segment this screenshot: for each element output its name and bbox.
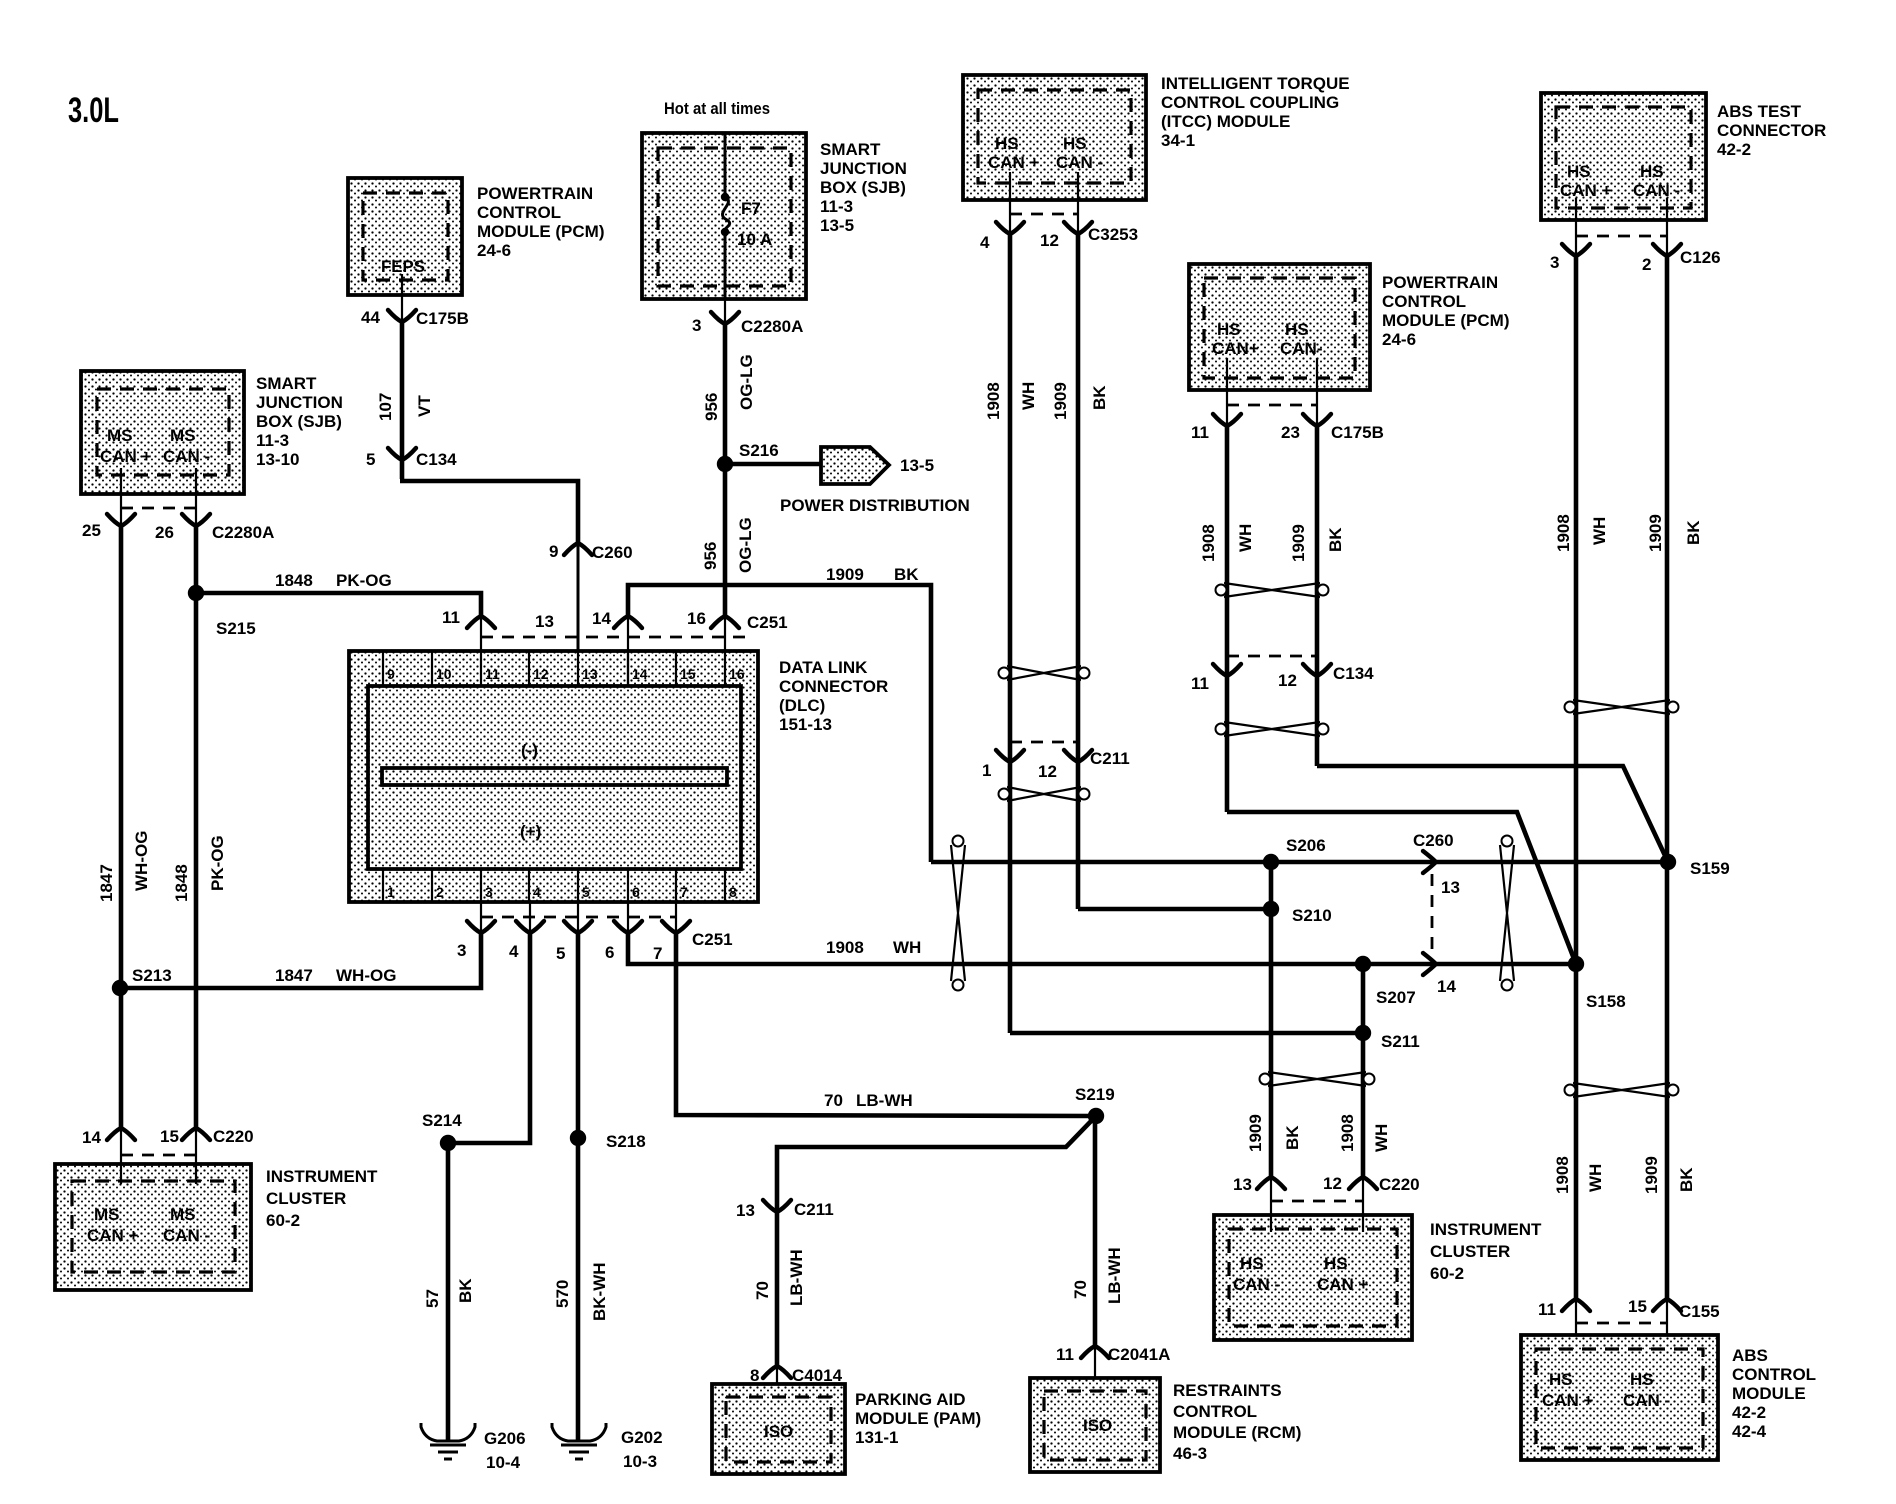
svg-text:INTELLIGENT TORQUE: INTELLIGENT TORQUE xyxy=(1161,74,1350,93)
splice S207 xyxy=(1355,956,1371,972)
svg-text:1908: 1908 xyxy=(1199,524,1218,562)
module DLC box xyxy=(349,651,758,902)
svg-text:WH: WH xyxy=(1586,1164,1605,1192)
wire 1847 WH-OG to DLC pin 3 xyxy=(120,933,481,988)
svg-text:BK: BK xyxy=(1326,527,1345,552)
svg-text:C220: C220 xyxy=(213,1127,254,1146)
svg-text:956: 956 xyxy=(702,393,721,421)
svg-text:14: 14 xyxy=(592,609,611,628)
svg-text:CONTROL: CONTROL xyxy=(1732,1365,1816,1384)
svg-text:CAN -: CAN - xyxy=(1633,181,1680,200)
svg-text:70: 70 xyxy=(753,1281,772,1300)
DLC pin 7 stub and arrow xyxy=(675,902,677,933)
svg-text:MODULE (PCM): MODULE (PCM) xyxy=(477,222,604,241)
svg-text:13: 13 xyxy=(582,666,598,682)
connector C251 pin 11 arrow xyxy=(467,616,495,628)
svg-text:1909: 1909 xyxy=(1646,514,1665,552)
splice S215 xyxy=(188,585,204,601)
svg-text:ISO: ISO xyxy=(1083,1416,1112,1435)
svg-text:WH: WH xyxy=(1590,517,1609,545)
svg-text:ABS TEST: ABS TEST xyxy=(1717,102,1802,121)
svg-text:14: 14 xyxy=(632,666,648,682)
twisted pair symbol PCM lower xyxy=(1216,722,1329,736)
svg-text:CONTROL: CONTROL xyxy=(477,203,561,222)
svg-text:13-5: 13-5 xyxy=(900,456,934,475)
svg-text:(+): (+) xyxy=(520,822,541,841)
svg-text:1908: 1908 xyxy=(984,382,1003,420)
svg-text:1908: 1908 xyxy=(1553,1156,1572,1194)
svg-text:11: 11 xyxy=(442,608,460,627)
splice S206 xyxy=(1263,854,1279,870)
module ABS control module box xyxy=(1521,1335,1718,1460)
label SMART JUNCTION BOX (SJB) 11-3 13-10 xyxy=(256,374,343,469)
svg-text:1909: 1909 xyxy=(1246,1114,1265,1152)
svg-text:1909: 1909 xyxy=(1051,382,1070,420)
label PARKING AID MODULE (PAM) 131-1 xyxy=(855,1390,981,1447)
svg-text:HS: HS xyxy=(1640,162,1664,181)
svg-text:CAN -: CAN - xyxy=(1056,153,1103,172)
svg-text:12: 12 xyxy=(1323,1174,1342,1193)
connector C155 dashed xyxy=(1576,1322,1667,1325)
svg-text:9: 9 xyxy=(549,542,558,561)
svg-text:12: 12 xyxy=(1040,231,1059,250)
svg-text:13: 13 xyxy=(1233,1175,1252,1194)
DLC pin 5 stub and arrow xyxy=(577,902,579,933)
svg-text:(ITCC) MODULE: (ITCC) MODULE xyxy=(1161,112,1290,131)
svg-text:HS: HS xyxy=(1549,1370,1573,1389)
svg-text:CONTROL COUPLING: CONTROL COUPLING xyxy=(1161,93,1339,112)
svg-text:WH-OG: WH-OG xyxy=(336,966,396,985)
svg-text:13: 13 xyxy=(736,1201,755,1220)
svg-text:S215: S215 xyxy=(216,619,256,638)
svg-text:44: 44 xyxy=(361,308,380,327)
svg-text:10-3: 10-3 xyxy=(623,1452,657,1471)
svg-text:S219: S219 xyxy=(1075,1085,1115,1104)
svg-text:SMART: SMART xyxy=(256,374,317,393)
svg-text:15: 15 xyxy=(680,666,696,682)
svg-text:11-3: 11-3 xyxy=(256,431,289,450)
svg-text:BK: BK xyxy=(894,565,919,584)
wire S216 to power distribution flag xyxy=(725,462,821,467)
svg-text:LB-WH: LB-WH xyxy=(1105,1247,1124,1304)
svg-text:VT: VT xyxy=(415,395,434,417)
wire 1847 WH-OG left vertical xyxy=(119,526,124,1128)
svg-text:CAN-: CAN- xyxy=(1280,339,1323,358)
svg-text:OG-LG: OG-LG xyxy=(736,517,755,573)
wire stubs out of SJB left xyxy=(120,468,122,528)
wire 1909 BK from DLC pin 14 xyxy=(628,585,931,862)
svg-text:SMART: SMART xyxy=(820,140,881,159)
svg-text:S213: S213 xyxy=(132,966,172,985)
svg-text:C3253: C3253 xyxy=(1088,225,1138,244)
DLC pin 3 stub and arrow xyxy=(480,902,482,933)
svg-text:BK: BK xyxy=(1090,385,1109,410)
wire ITCC 1908 WH vertical xyxy=(1008,234,1013,1033)
svg-text:25: 25 xyxy=(82,521,101,540)
module instrument cluster left box xyxy=(55,1164,251,1290)
label SMART JUNCTION BOX (SJB) 11-3 13-5 xyxy=(820,140,907,235)
svg-text:BK: BK xyxy=(1684,520,1703,545)
svg-text:70: 70 xyxy=(824,1091,843,1110)
svg-text:C251: C251 xyxy=(692,930,733,949)
svg-text:1847: 1847 xyxy=(97,864,116,902)
svg-text:570: 570 xyxy=(553,1280,572,1308)
wire ABS 1908 WH vertical xyxy=(1574,256,1579,1299)
ground G202 xyxy=(552,1423,606,1459)
fuse F7 10A xyxy=(721,193,772,249)
svg-text:10: 10 xyxy=(436,666,452,682)
svg-text:60-2: 60-2 xyxy=(1430,1264,1464,1283)
svg-text:15: 15 xyxy=(160,1127,179,1146)
svg-text:MS: MS xyxy=(170,426,196,445)
svg-text:42-2: 42-2 xyxy=(1732,1403,1766,1422)
svg-text:12: 12 xyxy=(1278,671,1297,690)
svg-text:INSTRUMENT: INSTRUMENT xyxy=(266,1167,378,1186)
connector C220 left dashed xyxy=(121,1154,196,1157)
svg-text:46-3: 46-3 xyxy=(1173,1444,1207,1463)
connector C260 inline arrow pin 14 xyxy=(1423,953,1436,975)
module SJB top (fuse F7) box xyxy=(642,133,806,299)
wire S210 down to cluster right pin 13 xyxy=(1269,909,1274,1177)
svg-text:3: 3 xyxy=(692,316,701,335)
svg-text:WH-OG: WH-OG xyxy=(132,831,151,891)
svg-text:HS: HS xyxy=(995,134,1019,153)
svg-text:1848: 1848 xyxy=(275,571,313,590)
svg-text:MODULE (PAM): MODULE (PAM) xyxy=(855,1409,981,1428)
svg-text:RESTRAINTS: RESTRAINTS xyxy=(1173,1381,1282,1400)
svg-text:CONNECTOR: CONNECTOR xyxy=(779,677,888,696)
svg-text:CAN +: CAN + xyxy=(1542,1391,1594,1410)
svg-text:C126: C126 xyxy=(1680,248,1721,267)
svg-text:CONTROL: CONTROL xyxy=(1173,1402,1257,1421)
connector C4014 pin 8 arrow xyxy=(763,1366,791,1378)
label ABS CONTROL MODULE 42-2 42-4 xyxy=(1732,1346,1816,1441)
svg-text:BK-WH: BK-WH xyxy=(590,1262,609,1321)
svg-text:S211: S211 xyxy=(1381,1032,1420,1051)
svg-text:2: 2 xyxy=(1642,255,1651,274)
svg-text:CAN +: CAN + xyxy=(988,153,1040,172)
svg-text:MS: MS xyxy=(170,1205,196,1224)
svg-text:5: 5 xyxy=(556,944,565,963)
svg-text:C134: C134 xyxy=(1333,664,1374,683)
svg-text:60-2: 60-2 xyxy=(266,1211,300,1230)
svg-text:HS: HS xyxy=(1324,1254,1348,1273)
svg-text:PK-OG: PK-OG xyxy=(336,571,392,590)
module RCM box xyxy=(1030,1378,1160,1472)
svg-text:11: 11 xyxy=(485,666,500,682)
svg-text:70: 70 xyxy=(1071,1280,1090,1299)
module SJB left box xyxy=(81,371,244,494)
svg-text:15: 15 xyxy=(1628,1297,1647,1316)
DLC pin dividers top xyxy=(383,651,725,686)
svg-text:1908: 1908 xyxy=(826,938,864,957)
svg-text:WH: WH xyxy=(893,938,921,957)
splice S210 xyxy=(1263,901,1279,917)
wire 70 LB-WH from DLC pin 7 to S219 xyxy=(676,931,1096,1116)
svg-text:Hot at all times: Hot at all times xyxy=(664,99,770,118)
svg-text:HS: HS xyxy=(1063,134,1087,153)
svg-text:1908: 1908 xyxy=(1554,514,1573,552)
twisted pair symbol PCM upper xyxy=(1216,583,1329,597)
svg-text:CAN+: CAN+ xyxy=(1212,339,1259,358)
svg-text:1: 1 xyxy=(982,761,991,780)
svg-text:MODULE (PCM): MODULE (PCM) xyxy=(1382,311,1509,330)
label INTELLIGENT TORQUE CONTROL COUPLING (ITCC) MODULE 34-1 xyxy=(1161,74,1350,150)
svg-text:MS: MS xyxy=(94,1205,120,1224)
svg-text:3: 3 xyxy=(1550,253,1559,272)
svg-text:16: 16 xyxy=(687,609,706,628)
svg-text:HS: HS xyxy=(1285,320,1309,339)
svg-text:7: 7 xyxy=(653,944,662,963)
connector C175B pin 44 arrow xyxy=(388,310,416,322)
svg-text:BK: BK xyxy=(1677,1167,1696,1192)
svg-text:ABS: ABS xyxy=(1732,1346,1768,1365)
twisted pair symbol main right xyxy=(1500,836,1514,991)
DLC pin numbers bottom xyxy=(387,884,737,900)
svg-text:C134: C134 xyxy=(416,450,457,469)
DLC pin 6 stub and arrow xyxy=(627,902,629,933)
splice S211 xyxy=(1355,1025,1371,1041)
svg-text:CAN -: CAN - xyxy=(1623,1391,1670,1410)
svg-text:CONTROL: CONTROL xyxy=(1382,292,1466,311)
wire S211 down to cluster right pin 12 xyxy=(1361,1033,1366,1177)
svg-text:CAN -: CAN - xyxy=(1233,1275,1280,1294)
svg-text:11-3: 11-3 xyxy=(820,197,853,216)
svg-text:1909: 1909 xyxy=(1642,1156,1661,1194)
twisted pair symbol cluster right xyxy=(1260,1072,1375,1086)
svg-text:HS: HS xyxy=(1630,1370,1654,1389)
svg-text:LB-WH: LB-WH xyxy=(856,1091,913,1110)
svg-text:1908: 1908 xyxy=(1338,1114,1357,1152)
svg-text:C211: C211 xyxy=(794,1200,834,1219)
svg-text:13: 13 xyxy=(1441,878,1460,897)
svg-text:7: 7 xyxy=(680,884,688,900)
svg-text:G202: G202 xyxy=(621,1428,663,1447)
label ABS TEST CONNECTOR 42-2 xyxy=(1717,102,1826,159)
svg-text:WH: WH xyxy=(1019,382,1038,410)
svg-text:14: 14 xyxy=(1437,977,1456,996)
svg-text:F7: F7 xyxy=(741,199,761,218)
label DATA LINK CONNECTOR (DLC) 151-13 xyxy=(779,658,888,734)
svg-text:11: 11 xyxy=(1538,1300,1556,1319)
connector C211 pin 13 arrow xyxy=(763,1200,791,1212)
svg-text:INSTRUMENT: INSTRUMENT xyxy=(1430,1220,1542,1239)
label RESTRAINTS CONTROL MODULE (RCM) 46-3 xyxy=(1173,1381,1301,1463)
svg-text:CAN -: CAN - xyxy=(163,447,210,466)
svg-text:5: 5 xyxy=(366,450,375,469)
DLC pin dividers bottom xyxy=(383,869,725,902)
svg-text:WH: WH xyxy=(1236,524,1255,552)
wire S219 diagonal to PAM branch xyxy=(777,1116,1096,1366)
wire fuse to box bottom xyxy=(724,230,727,299)
module PAM box xyxy=(712,1384,845,1474)
svg-text:HS: HS xyxy=(1217,320,1241,339)
svg-text:24-6: 24-6 xyxy=(477,241,511,260)
main bus line 1909 BK horizontal S206 xyxy=(931,860,1668,865)
svg-text:C155: C155 xyxy=(1679,1302,1720,1321)
svg-text:ISO: ISO xyxy=(764,1422,793,1441)
svg-text:S158: S158 xyxy=(1586,992,1626,1011)
svg-text:S218: S218 xyxy=(606,1132,646,1151)
wire ITCC BK to S210 xyxy=(1078,907,1271,912)
DLC pin 4 stub and arrow xyxy=(529,902,531,933)
svg-text:C2280A: C2280A xyxy=(212,523,274,542)
svg-text:LB-WH: LB-WH xyxy=(787,1249,806,1306)
power distribution flag symbol xyxy=(821,447,889,484)
svg-text:BK: BK xyxy=(1283,1125,1302,1150)
ITCC wire stubs xyxy=(1009,172,1011,236)
svg-text:CAN +: CAN + xyxy=(100,447,152,466)
svg-text:S214: S214 xyxy=(422,1111,462,1130)
svg-text:C175B: C175B xyxy=(416,309,469,328)
connector C134 inline dashed xyxy=(1227,655,1317,658)
svg-text:16: 16 xyxy=(729,666,745,682)
svg-text:C251: C251 xyxy=(747,613,788,632)
twisted pair symbol ITCC upper xyxy=(999,666,1090,680)
svg-text:CLUSTER: CLUSTER xyxy=(266,1189,346,1208)
svg-text:OG-LG: OG-LG xyxy=(737,354,756,410)
label POWERTRAIN CONTROL MODULE (PCM) 24-6 right xyxy=(1382,273,1509,349)
twisted pair symbol ABS upper xyxy=(1565,700,1679,714)
svg-text:4: 4 xyxy=(980,233,990,252)
svg-text:107: 107 xyxy=(376,393,395,421)
twisted pair symbol main left xyxy=(951,836,965,991)
wire PCM BK to S159 xyxy=(1317,766,1668,862)
svg-text:S159: S159 xyxy=(1690,859,1730,878)
connector C2041A pin 11 arrow xyxy=(1081,1346,1109,1358)
connector C260 pin 9 arrow xyxy=(564,543,592,555)
module ITCC box xyxy=(963,75,1146,200)
svg-text:C2280A: C2280A xyxy=(741,317,803,336)
svg-text:JUNCTION: JUNCTION xyxy=(820,159,907,178)
svg-text:6: 6 xyxy=(605,943,614,962)
splice S218 xyxy=(570,1130,586,1146)
svg-text:JUNCTION: JUNCTION xyxy=(256,393,343,412)
wire into DLC pin 13 xyxy=(577,543,580,686)
svg-text:S216: S216 xyxy=(739,441,779,460)
svg-text:3: 3 xyxy=(457,941,466,960)
svg-text:2: 2 xyxy=(436,884,444,900)
wire FEPS stub xyxy=(401,274,403,324)
wire S206 to S210 xyxy=(1269,862,1274,909)
svg-text:POWER DISTRIBUTION: POWER DISTRIBUTION xyxy=(780,496,970,515)
svg-text:CAN -: CAN - xyxy=(163,1226,210,1245)
wire PCM 1909 BK vertical xyxy=(1315,426,1320,766)
wire inside SJB to fuse xyxy=(724,133,727,198)
svg-text:4: 4 xyxy=(509,942,519,961)
module PCM (FEPS) box xyxy=(348,178,462,295)
svg-text:S206: S206 xyxy=(1286,836,1326,855)
svg-text:13-10: 13-10 xyxy=(256,450,299,469)
connector C220 left arrows xyxy=(107,1128,135,1140)
module instrument cluster right box xyxy=(1214,1215,1412,1340)
DLC pin numbers top xyxy=(387,666,745,682)
svg-text:9: 9 xyxy=(387,666,395,682)
wire 1908 WH main line from DLC pin 6 xyxy=(628,931,1576,964)
svg-text:3.0L: 3.0L xyxy=(68,91,119,130)
label INSTRUMENT CLUSTER 60-2 right xyxy=(1430,1220,1542,1283)
twisted pair symbol ITCC lower xyxy=(999,787,1090,801)
wire 107 VT vertical xyxy=(400,322,405,479)
connector C220 right arrows xyxy=(1257,1177,1285,1189)
svg-text:POWERTRAIN: POWERTRAIN xyxy=(477,184,593,203)
svg-text:PK-OG: PK-OG xyxy=(208,835,227,891)
splice S158 xyxy=(1568,956,1584,972)
connector C260 inline arrow pin 13 xyxy=(1423,851,1436,873)
svg-text:26: 26 xyxy=(155,523,174,542)
svg-text:POWERTRAIN: POWERTRAIN xyxy=(1382,273,1498,292)
connector C134 pin 5 arrow xyxy=(388,448,416,460)
wire S207 to S211 xyxy=(1361,964,1366,1033)
wire 1848 PK-OG vertical xyxy=(194,526,199,1128)
svg-text:BK: BK xyxy=(456,1278,475,1303)
svg-text:CONNECTOR: CONNECTOR xyxy=(1717,121,1826,140)
svg-text:C260: C260 xyxy=(1413,831,1454,850)
svg-text:PARKING AID: PARKING AID xyxy=(855,1390,966,1409)
svg-text:MODULE (RCM): MODULE (RCM) xyxy=(1173,1423,1301,1442)
svg-text:1909: 1909 xyxy=(1289,524,1308,562)
svg-text:CAN +: CAN + xyxy=(1317,1275,1369,1294)
wire DLC pin 5 to ground G202 xyxy=(576,931,581,1441)
wire ITCC 1909 BK vertical xyxy=(1076,234,1081,909)
ground G206 xyxy=(421,1423,475,1459)
svg-text:12: 12 xyxy=(533,666,549,682)
svg-text:1: 1 xyxy=(387,884,395,900)
svg-text:G206: G206 xyxy=(484,1429,526,1448)
svg-text:HS: HS xyxy=(1567,162,1591,181)
wire 1848 PK-OG to DLC pin 11 xyxy=(196,593,481,616)
svg-text:MS: MS xyxy=(107,426,133,445)
svg-text:4: 4 xyxy=(533,884,541,900)
svg-text:CLUSTER: CLUSTER xyxy=(1430,1242,1510,1261)
svg-text:42-4: 42-4 xyxy=(1732,1422,1767,1441)
svg-text:34-1: 34-1 xyxy=(1161,131,1195,150)
svg-text:1848: 1848 xyxy=(172,864,191,902)
splice S219 xyxy=(1088,1108,1104,1124)
svg-text:FEPS: FEPS xyxy=(381,257,425,276)
wire ABS 1909 BK vertical xyxy=(1665,256,1670,1299)
svg-text:23: 23 xyxy=(1281,423,1300,442)
wire 956 OG-LG S216 down to DLC pin 16 xyxy=(723,464,728,616)
svg-text:8: 8 xyxy=(729,884,737,900)
connector C251 pin 16 arrow xyxy=(711,616,739,628)
wire PCM 1908 WH vertical xyxy=(1225,426,1230,812)
svg-text:13: 13 xyxy=(535,612,554,631)
twisted pair symbol ABS lower xyxy=(1565,1083,1679,1097)
svg-text:(DLC): (DLC) xyxy=(779,696,825,715)
wire 956 OG-LG down to S216 xyxy=(723,324,728,464)
svg-text:131-1: 131-1 xyxy=(855,1428,898,1447)
svg-text:C175B: C175B xyxy=(1331,423,1384,442)
svg-text:10 A: 10 A xyxy=(737,230,772,249)
svg-text:C2041A: C2041A xyxy=(1108,1345,1170,1364)
wire DLC pin 4 to S214 xyxy=(448,931,530,1143)
svg-text:6: 6 xyxy=(632,884,640,900)
svg-text:DATA LINK: DATA LINK xyxy=(779,658,868,677)
svg-text:13-5: 13-5 xyxy=(820,216,854,235)
svg-text:14: 14 xyxy=(82,1128,101,1147)
svg-text:5: 5 xyxy=(582,884,590,900)
wire S219 down to RCM xyxy=(1093,1116,1098,1346)
wire 57 BK to ground G206 xyxy=(446,1143,451,1441)
label INSTRUMENT CLUSTER 60-2 left xyxy=(266,1167,378,1230)
connector C3253 dashed xyxy=(1010,213,1078,216)
DLC center bar xyxy=(382,768,727,785)
svg-text:10-4: 10-4 xyxy=(486,1453,521,1472)
svg-text:3: 3 xyxy=(485,884,493,900)
connector C126 dashed xyxy=(1576,235,1667,238)
ABS test stubs xyxy=(1575,198,1577,258)
